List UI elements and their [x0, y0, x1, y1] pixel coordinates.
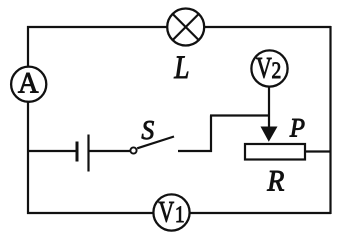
svg-text:R: R [266, 165, 285, 198]
voltmeter V2 circle [251, 50, 287, 86]
svg-text:V: V [256, 51, 272, 84]
lamp L circle [167, 9, 204, 46]
wire battery to switch [89, 150, 130, 152]
wire switch to step [178, 150, 212, 152]
battery cell: short thick plate (left) [76, 142, 79, 162]
wire step horizontal [210, 114, 269, 116]
wire V2 drop to slider [268, 87, 270, 128]
slider arrow P [261, 127, 278, 142]
wire top [27, 26, 331, 28]
svg-text:1: 1 [175, 202, 185, 228]
svg-text:S: S [141, 115, 154, 145]
rheostat R box [245, 144, 305, 160]
wire left [27, 26, 29, 214]
wire bottom [27, 212, 331, 214]
wire right [329, 26, 331, 214]
ammeter A circle [11, 67, 46, 102]
wire step vertical [210, 116, 212, 153]
wire battery branch left [28, 150, 76, 152]
voltmeter V1 circle [153, 194, 189, 230]
svg-text:V: V [158, 195, 174, 228]
lamp X diagonal 2 [173, 14, 199, 40]
svg-text:A: A [18, 67, 39, 99]
wire rheostat to right [306, 150, 330, 152]
battery cell: long thin plate (right) [87, 135, 89, 172]
svg-text:P: P [289, 114, 305, 143]
switch S blade [137, 137, 174, 149]
switch S pivot circle [130, 147, 136, 153]
lamp X diagonal 1 [173, 14, 199, 40]
svg-text:2: 2 [272, 58, 282, 84]
svg-text:L: L [173, 49, 189, 86]
